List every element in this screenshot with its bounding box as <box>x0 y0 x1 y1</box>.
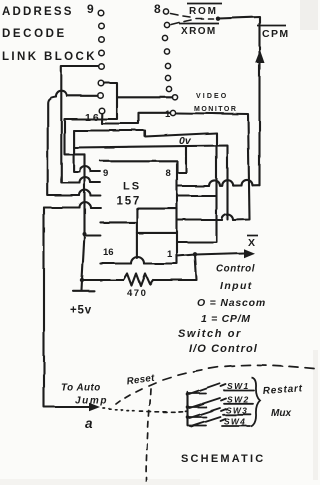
svg-text:ROM: ROM <box>189 6 218 17</box>
wire branch into chip left side <box>85 234 101 236</box>
multiplexer U1 LS157 body <box>100 161 177 264</box>
switch contact ticks <box>220 385 226 421</box>
wire chip pin row to CPM net with hops <box>177 184 260 187</box>
switch label underlines <box>222 391 254 427</box>
left link column pins <box>98 10 105 114</box>
wire from video monitor link pin to left bundle <box>65 97 173 154</box>
arrowhead control input <box>244 249 255 258</box>
svg-text:9: 9 <box>103 168 108 179</box>
wire hop over vertical net at x84 <box>80 190 91 196</box>
wire hop over net V1 <box>241 180 252 186</box>
power +5v symbol <box>73 280 94 291</box>
right link column pins <box>162 9 177 116</box>
wire row above chip to net V2 <box>74 131 217 137</box>
node switch SW1 pivot <box>186 392 190 396</box>
wire row into chip left side <box>44 206 100 208</box>
svg-text:SW1: SW1 <box>227 381 250 391</box>
wire control input line from chip pin 1 <box>177 253 244 256</box>
svg-text:LINK BLOCK: LINK BLOCK <box>2 51 97 63</box>
arrowhead to auto reset jump <box>89 403 100 411</box>
switch SW1 <box>188 384 221 395</box>
svg-text:1 = CP/M: 1 = CP/M <box>201 313 251 325</box>
dotted wire from node a to restart mux <box>103 408 187 412</box>
dashed boundary vertical <box>146 389 151 481</box>
chip internal divider horizontal right lower <box>137 232 177 234</box>
wire hop over left vertical wire <box>56 91 67 97</box>
svg-text:I/O Control: I/O Control <box>189 343 258 355</box>
switch SW3 <box>188 408 221 418</box>
svg-text:O = Nascom: O = Nascom <box>197 297 266 309</box>
node 0v stem <box>177 147 186 173</box>
svg-text:0v: 0v <box>179 135 192 147</box>
svg-text:16: 16 <box>85 112 101 124</box>
svg-text:VIDEO: VIDEO <box>196 93 228 100</box>
notch on chip bottom edge <box>131 257 144 264</box>
restart mux switch bus <box>186 392 188 425</box>
switch SW4 <box>188 417 221 427</box>
svg-text:Control: Control <box>216 264 255 275</box>
svg-text:157: 157 <box>117 196 142 208</box>
svg-text:MONITOR: MONITOR <box>194 106 237 113</box>
svg-text:16: 16 <box>103 247 114 258</box>
wire hop over vertical net at x84 <box>80 177 91 182</box>
wire from link pin 16 around chip to right pin row <box>102 113 250 220</box>
wire from link pin 7 of left column down to chip <box>48 96 101 196</box>
svg-text:SW4: SW4 <box>224 417 246 427</box>
dashed boundary curve <box>116 365 314 404</box>
svg-text:DECODE: DECODE <box>2 28 67 40</box>
wire vertical net x84 to +5v rail <box>82 154 85 280</box>
junction node on control line <box>193 252 197 256</box>
svg-text:470: 470 <box>127 288 147 299</box>
junction node at x84 <box>83 232 87 236</box>
wire from link pin 5 of left column down to chip row, pin 9 side <box>61 67 100 183</box>
node switch SW2 pivot <box>186 405 190 409</box>
wire net V2 down to chip right pin <box>177 133 217 242</box>
svg-text:XROM: XROM <box>181 26 217 37</box>
svg-text:Mux: Mux <box>271 408 291 419</box>
svg-text:9: 9 <box>87 2 94 16</box>
svg-text:X: X <box>248 237 255 249</box>
svg-text:+5v: +5v <box>70 305 92 317</box>
chip internal divider horizontal left <box>100 221 136 223</box>
wire hop over net V2 <box>222 215 233 221</box>
wire from link pin 6 of left column <box>104 83 117 97</box>
dashed link XROM pin to junction <box>171 20 191 25</box>
wire hop over net V3 <box>222 180 233 186</box>
wire row above chip to net V3 <box>74 146 228 220</box>
svg-text:1: 1 <box>167 249 173 260</box>
wire hop over vertical net at x84 <box>80 202 91 208</box>
svg-text:SCHEMATIC: SCHEMATIC <box>181 453 265 465</box>
wire hop over vertical net at x84 <box>80 166 91 171</box>
svg-text:Switch or: Switch or <box>178 328 242 340</box>
svg-text:8: 8 <box>154 2 161 16</box>
svg-text:CPM: CPM <box>262 28 290 40</box>
svg-text:8: 8 <box>166 168 171 179</box>
resistor R1 470 zigzag <box>82 274 153 286</box>
svg-text:SW2: SW2 <box>227 395 250 405</box>
wire resistor leg up to control line <box>153 255 197 281</box>
svg-text:a: a <box>85 416 93 431</box>
wire long vertical to auto reset jump <box>44 208 96 408</box>
svg-text:1: 1 <box>165 109 171 120</box>
svg-text:Jump: Jump <box>75 396 108 407</box>
arrowhead CPM direction up <box>255 50 265 63</box>
switch SW2 <box>188 398 221 408</box>
wire chip right pin to net V2 <box>177 195 217 197</box>
dashed link ROM pin to junction <box>171 14 179 16</box>
chip internal divider horizontal right upper <box>137 208 177 210</box>
junction node ROM/XROM <box>215 16 219 20</box>
brace for restart mux group <box>251 378 260 427</box>
svg-text:ADDRESS: ADDRESS <box>2 6 74 18</box>
junction node at +5v tap <box>80 278 84 282</box>
svg-text:Input: Input <box>220 280 253 292</box>
chip internal divider vertical <box>136 209 138 258</box>
node switch SW3 pivot <box>186 415 190 419</box>
wire hop over net V2 <box>209 180 220 186</box>
svg-text:SW3: SW3 <box>226 406 248 416</box>
wire into chip pin 9 row <box>74 131 101 172</box>
wire CPM vertical net <box>218 17 260 186</box>
svg-text:To Auto: To Auto <box>61 383 101 394</box>
svg-text:LS: LS <box>123 181 141 193</box>
